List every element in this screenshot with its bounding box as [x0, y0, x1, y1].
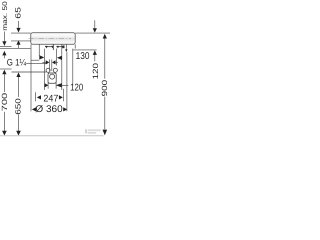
bracket line y60.2	[31, 59, 39, 61]
bent leader left: stem	[38, 44, 40, 56]
line 700 upper tail	[3, 74, 5, 92]
floor line	[0, 135, 104, 137]
arrow 700 up	[2, 70, 6, 75]
tail right of thread arrow	[56, 61, 58, 63]
extension line spout top left	[11, 32, 31, 34]
circle in box	[50, 74, 55, 79]
spout body side view	[31, 33, 75, 45]
centerline of spout	[28, 38, 71, 40]
arrow 650 down at floor	[16, 131, 21, 136]
arrow max50 up	[2, 51, 6, 56]
svg-text:65: 65	[14, 7, 23, 19]
svg-text:650: 650	[14, 98, 23, 115]
witness x67	[66, 52, 68, 111]
escutcheon box below deck	[48, 73, 56, 83]
watermark text line2	[88, 132, 97, 134]
arrow 650 up	[16, 72, 20, 77]
deck line right	[73, 49, 97, 51]
arrow thread right	[46, 60, 50, 64]
arrow left toward stem	[56, 83, 62, 87]
deck bottom line left	[0, 47, 31, 49]
svg-text:700: 700	[0, 93, 9, 111]
witness line x56.6	[56, 49, 58, 66]
dim 360 arrow right	[63, 107, 67, 111]
svg-text:Ø 360: Ø 360	[35, 104, 63, 115]
extension line spout top right	[75, 32, 110, 34]
arrow max50 down	[2, 41, 6, 46]
dim line into right arrow	[42, 61, 45, 63]
outlet stub line	[65, 45, 67, 50]
svg-text:120: 120	[70, 82, 84, 93]
extension line left edge (x31)	[30, 44, 32, 111]
dim 130 line top	[94, 20, 96, 28]
arrow 65 down	[16, 28, 20, 33]
arrow 900 down at floor	[103, 130, 108, 136]
spout underside line left	[11, 40, 31, 42]
witness x49.6	[49, 59, 51, 71]
line 650 upper tail	[18, 77, 20, 97]
right side vertical x72.8	[72, 49, 74, 86]
witness x51.8	[51, 59, 53, 71]
arrow 130 up below deck	[93, 50, 97, 55]
deck top line left	[0, 46, 12, 48]
line 900 upper	[104, 39, 106, 79]
arrow 65 up	[16, 40, 20, 45]
leader line y72 to circle	[12, 71, 47, 73]
bent leader right: stem	[61, 44, 63, 90]
hose circle left	[46, 68, 50, 72]
stem edge extensions	[47, 83, 49, 89]
arrow thread left	[52, 60, 56, 64]
outlet wedge arrow	[65, 49, 67, 52]
arrow right toward stem	[45, 83, 49, 87]
svg-text:247: 247	[43, 93, 58, 104]
svg-text:G 1¼: G 1¼	[7, 57, 27, 68]
svg-text:900: 900	[100, 80, 109, 97]
dim 360 arrow left	[32, 107, 36, 111]
dim 900 arrow up	[103, 34, 107, 39]
arrow 700 down at floor	[2, 131, 7, 136]
watermark text line1	[88, 129, 101, 131]
dim 247 arrow left	[37, 95, 41, 99]
line 900 lower	[104, 97, 106, 130]
tail of 130 arrow	[94, 55, 96, 61]
leader line y69 left	[0, 68, 12, 70]
svg-text:max. 50: max. 50	[2, 1, 9, 31]
bent leader right: arrow left	[57, 56, 62, 60]
svg-text:130: 130	[76, 51, 90, 62]
hose circle right	[53, 68, 57, 72]
line 650 lower	[18, 115, 20, 131]
svg-text:120: 120	[91, 63, 100, 79]
leader line from G label	[26, 63, 46, 65]
tail to 120 label	[62, 84, 69, 86]
line 700 lower	[3, 112, 5, 131]
mounting hardware left	[45, 46, 48, 49]
witness line x44.5	[44, 49, 46, 90]
arrow 130 down	[93, 28, 97, 32]
dim line 65 upper	[18, 21, 20, 28]
bent leader left: arrow right	[39, 55, 44, 59]
watermark logo block	[85, 129, 87, 133]
mounting hardware right	[57, 46, 59, 49]
dim 247 arrow right	[59, 95, 63, 99]
rect right edge extension	[74, 44, 76, 48]
dim line max50 upper	[3, 32, 5, 42]
tail 65 lower	[18, 45, 20, 49]
tail max50 lower	[3, 55, 5, 58]
witness x63.4	[62, 89, 64, 102]
witness short x35.6	[35, 92, 37, 101]
